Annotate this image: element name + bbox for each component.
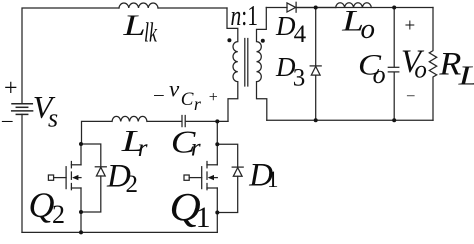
svg-text:s: s	[48, 104, 58, 133]
svg-text:r: r	[138, 135, 148, 162]
svg-text:+: +	[405, 16, 416, 37]
svg-text:o: o	[361, 13, 376, 45]
diode D2	[81, 144, 106, 212]
svg-text:+: +	[209, 89, 218, 106]
svg-text:–: –	[406, 88, 415, 104]
svg-text:+: +	[4, 76, 18, 102]
mosfet Q2	[48, 144, 81, 232]
wire Lr to Cr	[147, 120, 181, 122]
svg-text:1: 1	[267, 167, 279, 192]
transformer core	[244, 39, 246, 87]
node dot Q1 drain top	[215, 119, 219, 123]
node dot transformer secondary	[261, 39, 265, 43]
svg-text:L: L	[457, 60, 474, 90]
svg-text:L: L	[122, 9, 146, 42]
node dot Q2 source	[79, 210, 83, 214]
svg-text:2: 2	[52, 200, 65, 229]
svg-text:r: r	[194, 94, 202, 114]
wire Cr to primary riser	[186, 120, 228, 122]
wire left vertical bottom	[21, 114, 23, 232]
diode D3 branch	[315, 8, 317, 121]
node dot Co bottom	[392, 118, 396, 122]
node dot Q1 drain	[215, 142, 219, 146]
mosfet Q1	[184, 144, 217, 232]
node dot Lo-Co top	[392, 6, 396, 10]
svg-text:C: C	[181, 89, 194, 110]
svg-text:n:1: n:1	[231, 1, 259, 32]
wire D4 to top-right corner	[296, 7, 433, 9]
svg-text:–: –	[1, 107, 13, 131]
svg-text:4: 4	[294, 21, 307, 48]
resistor RL	[429, 8, 436, 121]
node dot Q2 drain	[79, 142, 83, 146]
wire bottom right rail	[267, 119, 433, 121]
svg-text:Q: Q	[29, 185, 55, 225]
svg-text:1: 1	[196, 201, 211, 234]
diode D1	[217, 144, 243, 212]
battery Vs	[12, 104, 33, 115]
diode D4	[287, 3, 296, 12]
capacitor Cr	[181, 116, 183, 127]
node dot Q2 bottom rail	[79, 230, 83, 234]
transformer primary winding	[227, 8, 238, 121]
inductor Llk	[119, 3, 158, 8]
svg-text:lk: lk	[144, 18, 158, 48]
wire top rail to transformer	[158, 7, 227, 9]
svg-text:3: 3	[293, 65, 306, 92]
inductor Lo	[296, 7, 336, 9]
wire bottom rail	[22, 231, 217, 233]
capacitor Co branch	[393, 8, 395, 68]
svg-text:o: o	[373, 60, 386, 89]
wire middle branch left segment	[82, 121, 113, 144]
svg-text:v: v	[169, 77, 180, 102]
transformer secondary winding	[257, 8, 267, 121]
node dot D4-D3 top	[314, 6, 318, 10]
svg-text:–: –	[153, 84, 164, 105]
inductor Lr	[112, 116, 147, 121]
node dot transformer primary	[227, 38, 231, 42]
svg-text:r: r	[191, 135, 201, 162]
wire Q1 drain drop	[216, 121, 218, 144]
node dot Q1 source	[215, 211, 219, 215]
node dot D3 bottom	[314, 118, 318, 122]
wire secondary top to D4	[266, 7, 287, 9]
svg-text:2: 2	[126, 171, 139, 198]
svg-text:o: o	[414, 57, 427, 84]
wire left vertical top (source to top rail)	[22, 8, 119, 104]
